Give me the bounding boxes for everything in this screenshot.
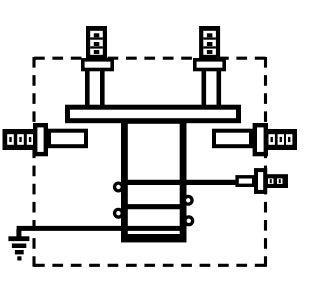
secondary terminal S1 collar	[256, 170, 265, 192]
ground bar 4 (dot)	[17, 256, 21, 260]
bushing B1 stack divider 2	[90, 46, 103, 48]
terminal P2 blade (right)	[214, 131, 251, 147]
terminal P2 window 3	[286, 134, 292, 145]
terminal P1 window 1	[7, 134, 14, 145]
terminal P2 collar	[255, 125, 266, 154]
bushing B2 stack divider 2	[203, 46, 216, 48]
terminal P2 pin 2	[280, 137, 282, 142]
terminal P2 plug housing	[266, 129, 297, 150]
bushing B2 contact bar 2	[207, 42, 213, 46]
enclosure boundary right side	[264, 57, 267, 267]
bushing B1 contact bar 2	[94, 42, 100, 46]
bushing B2 contact bar 1	[207, 33, 213, 37]
terminal P2 pin 1	[271, 137, 273, 142]
terminal P2 window 1	[269, 134, 275, 145]
enclosure boundary (dashed box) top side	[34, 57, 266, 60]
enclosure boundary left side	[32, 57, 35, 267]
primary bus bar (top beam)	[68, 107, 239, 121]
bushing B1 contact bar 1	[94, 33, 100, 37]
terminal P1 window 2	[17, 134, 24, 145]
secondary terminal S1 pin 1	[270, 179, 272, 183]
bushing B2 contact bar 3	[207, 50, 213, 54]
bushing B2 stack divider 1	[203, 37, 216, 39]
ground bar 1	[8, 236, 29, 241]
terminal P1 pin 3	[29, 137, 31, 142]
winding loop L2 (left lower turn)	[115, 209, 123, 217]
secondary terminal S1 window 1	[268, 178, 274, 184]
secondary terminal S1 window 2	[277, 178, 283, 184]
bushing B2 terminal stack window	[203, 31, 216, 55]
bushing B1 terminal stack body	[86, 26, 107, 59]
winding loop L1 (left upper turn)	[115, 183, 123, 191]
bushing B1 contact bar 3	[94, 50, 100, 54]
ground wire D (bottom turn to earth)	[17, 226, 184, 231]
winding loop R1 (right upper turn)	[184, 196, 192, 204]
bushing B2 insulator column (top-right)	[204, 66, 219, 108]
transformer tank T1 bottom plate	[121, 234, 187, 242]
bushing B1 terminal stack window	[90, 31, 103, 55]
ground stem	[16, 229, 21, 238]
winding wire M (middle turn)	[123, 204, 184, 209]
transformer tank T1 body	[124, 120, 183, 238]
terminal P1 pin 2	[19, 137, 21, 142]
bushing B1 mounting flange	[83, 60, 112, 70]
ground bar 2	[12, 244, 26, 249]
terminal P2 pin 3	[288, 137, 290, 142]
terminal P1 window 3	[27, 134, 34, 145]
winding wire A (to secondary terminal)	[123, 180, 237, 185]
terminal P1 pin 1	[9, 137, 11, 142]
winding loop R2 (right lower turn)	[185, 217, 193, 225]
secondary terminal S1 pin 2	[279, 179, 281, 183]
enclosure boundary bottom side	[34, 264, 266, 267]
terminal P2 window 2	[278, 134, 284, 145]
secondary terminal S1 housing	[266, 174, 288, 188]
secondary terminal S1 blade	[237, 177, 254, 186]
bushing B1 insulator column (top-left)	[87, 66, 102, 108]
ground bar 3	[15, 250, 24, 254]
bushing B2 terminal stack body	[199, 26, 220, 59]
bushing B1 stack divider 1	[90, 37, 103, 39]
terminal P1 collar	[35, 125, 46, 154]
terminal P1 plug housing (left)	[3, 129, 34, 150]
terminal P1 blade	[49, 131, 86, 147]
bushing B2 mounting flange	[195, 60, 224, 70]
